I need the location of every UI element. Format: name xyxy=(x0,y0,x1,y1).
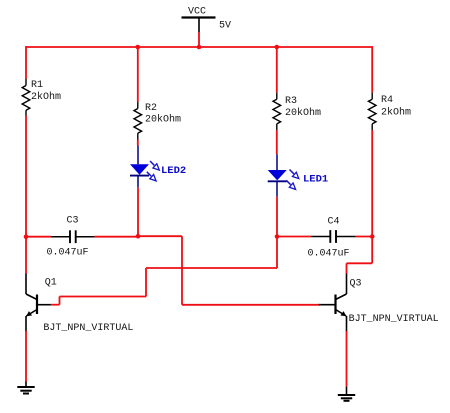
wire node A to Q1 collector xyxy=(25,237,27,274)
svg-text:0.047uF: 0.047uF xyxy=(308,249,350,260)
wire node A to C3 xyxy=(26,236,51,238)
wire rail to R2 xyxy=(137,47,139,102)
svg-text:2kOhm: 2kOhm xyxy=(31,91,61,103)
transistor Q3 xyxy=(319,274,347,332)
wire to Q3 collector xyxy=(346,263,348,273)
LED D1 xyxy=(268,154,299,197)
wire rail to R3 xyxy=(276,47,278,93)
wire C4 to node D xyxy=(356,236,373,238)
svg-text:BJT_NPN_VIRTUAL: BJT_NPN_VIRTUAL xyxy=(43,323,133,334)
wire down x146 xyxy=(145,268,147,297)
resistor R3 xyxy=(273,93,281,130)
wire node B down to base net xyxy=(181,236,183,305)
wire VCC stem xyxy=(198,32,200,47)
wire node B east xyxy=(138,235,182,237)
svg-text:C4: C4 xyxy=(328,216,340,227)
wire west y263 xyxy=(347,262,373,264)
svg-text:R1: R1 xyxy=(31,80,43,91)
junction rail-R3 xyxy=(275,45,280,50)
wire cross west xyxy=(146,267,277,269)
wire node D down xyxy=(371,237,373,264)
transistor Q1 xyxy=(26,274,51,332)
wire node C to C4 xyxy=(277,236,311,238)
wire Q1 emitter to ground xyxy=(25,331,27,382)
svg-text:Q1: Q1 xyxy=(45,278,57,289)
wire C3 to node B xyxy=(94,236,138,238)
svg-text:Q3: Q3 xyxy=(350,279,362,290)
resistor R4 xyxy=(368,93,376,130)
svg-text:20kOhm: 20kOhm xyxy=(285,107,321,119)
capacitor C3 xyxy=(51,230,94,243)
wire R2 to LED2 xyxy=(137,140,139,146)
svg-text:BJT_NPN_VIRTUAL: BJT_NPN_VIRTUAL xyxy=(349,314,439,325)
svg-text:0.047uF: 0.047uF xyxy=(47,248,89,259)
wire R1 to node A xyxy=(25,116,27,237)
junction rail-R2 xyxy=(136,45,141,50)
wire to Q3 base xyxy=(182,304,320,306)
svg-text:2kOhm: 2kOhm xyxy=(381,107,411,119)
svg-text:LED2: LED2 xyxy=(161,165,186,177)
capacitor C4 xyxy=(311,230,356,243)
svg-text:LED1: LED1 xyxy=(303,174,328,186)
wire rail to R1 xyxy=(25,46,27,79)
resistor R1 xyxy=(22,79,30,116)
wire R3 to LED1 xyxy=(276,130,278,154)
svg-text:C3: C3 xyxy=(67,215,79,226)
wire node C down xyxy=(276,237,278,269)
junction node B xyxy=(136,234,141,239)
junction node C xyxy=(275,234,280,239)
svg-text:20kOhm: 20kOhm xyxy=(145,114,181,126)
wire to Q1 base xyxy=(51,304,60,306)
ground GND2 xyxy=(338,387,355,401)
junction node A xyxy=(24,234,29,239)
svg-text:VCC: VCC xyxy=(188,7,206,18)
power VCC xyxy=(182,18,216,33)
wire LED1 to node C xyxy=(276,197,278,237)
LED D2 xyxy=(130,146,159,188)
wire LED2 to node B xyxy=(137,187,139,236)
svg-text:5V: 5V xyxy=(219,21,231,32)
wire west y296 xyxy=(60,296,147,298)
wire rail to R4 xyxy=(371,46,373,92)
junction node D xyxy=(370,234,375,239)
svg-text:R4: R4 xyxy=(381,95,393,106)
resistor R2 xyxy=(134,102,142,140)
wire Q3 emitter to ground xyxy=(346,331,348,387)
svg-text:R2: R2 xyxy=(145,103,157,114)
svg-text:R3: R3 xyxy=(285,96,297,107)
junction rail-VCC xyxy=(197,45,202,50)
wire R4 to node D xyxy=(371,130,373,237)
wire jog down xyxy=(59,297,61,305)
wire top rail xyxy=(25,46,373,48)
ground GND1 xyxy=(17,382,34,394)
